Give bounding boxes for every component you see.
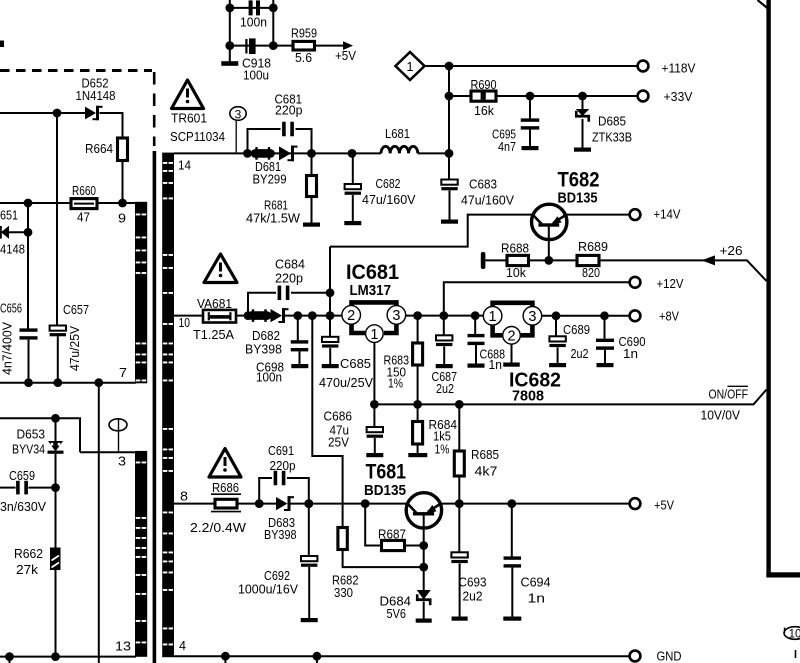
svg-text:820: 820 [582, 265, 600, 280]
wire D652 to corner [57, 112, 85, 114]
label 10V/0V [701, 407, 741, 422]
regulator IC681 pin 2 [342, 306, 361, 325]
svg-text:C656: C656 [0, 301, 22, 316]
svg-text:R687: R687 [378, 526, 406, 541]
wire pin10 to fuse [174, 315, 203, 317]
terminal +33V [638, 91, 649, 102]
resistor R690 [471, 91, 496, 101]
label R684 [429, 417, 458, 432]
label 2u2 of C689 [571, 346, 589, 361]
junction C691 right [304, 499, 313, 508]
label R664 [85, 141, 113, 156]
wire base node down [423, 546, 425, 568]
ground bar C690 [597, 363, 614, 367]
diode D681 bead [255, 147, 271, 160]
capacitor C698 [291, 316, 309, 364]
terminal +12V [630, 277, 641, 288]
ground bar C689 [549, 363, 566, 367]
warning triangle VA681 [204, 254, 237, 283]
label 1% of R683 [388, 376, 403, 391]
wire fuse to D682 [236, 315, 251, 317]
label 10k [506, 265, 526, 280]
junction C695 top [526, 92, 535, 101]
fuse VA681 [203, 310, 236, 323]
wire pin7 line [0, 382, 136, 384]
capacitor C682 [345, 153, 361, 221]
svg-text:+33V: +33V [664, 89, 693, 104]
dashed boundary horizontal [0, 69, 152, 72]
diode D682 bead [252, 309, 268, 322]
capacitor C690 [596, 316, 614, 363]
border bus line [766, 0, 800, 578]
wire R664 to node 9 [122, 161, 124, 204]
resistor R684 [413, 404, 423, 453]
svg-text:1%: 1% [388, 376, 403, 391]
label +8V [659, 309, 679, 324]
junction gnd stub 1 [221, 652, 230, 661]
junction R683 top [413, 311, 422, 320]
junction R664-R660 [118, 199, 127, 208]
svg-text:651: 651 [0, 208, 18, 223]
label VA681 [197, 296, 232, 311]
svg-text:100n: 100n [240, 15, 267, 30]
wire R686 to D683 [237, 503, 276, 505]
label 27k [16, 562, 39, 577]
diode D685 zener [575, 96, 590, 148]
label IC681 [346, 261, 399, 284]
wire IC682 pin2 gnd [511, 345, 513, 363]
ground bar R681 [303, 223, 320, 227]
junction top-left 100n [225, 4, 234, 13]
label D651 partial [0, 208, 18, 223]
svg-text:4n7/400V: 4n7/400V [0, 322, 15, 375]
svg-text:T1.25A: T1.25A [193, 327, 234, 342]
wire +12V branch [444, 282, 630, 315]
wire riser to R690 [449, 95, 471, 97]
svg-text:R662: R662 [14, 546, 43, 561]
svg-text:TR601: TR601 [171, 111, 207, 126]
terminal +14V [630, 209, 641, 220]
label 7808 [512, 388, 544, 405]
label R685 [471, 447, 499, 462]
svg-text:C691: C691 [268, 443, 294, 458]
wire vertical right leg of C918 block [272, 0, 274, 46]
label R683 [384, 353, 410, 368]
wire R689 to +26 [599, 260, 767, 281]
junction right C918 [269, 41, 278, 50]
capacitor C695 [521, 96, 540, 146]
svg-text:R685: R685 [471, 447, 499, 462]
junction R682 riser top [308, 311, 317, 320]
label D684 [380, 594, 412, 609]
diode D653 BYV34 [48, 441, 64, 454]
wire D651 to node [9, 231, 28, 233]
node 3 bubble [230, 107, 246, 153]
label BY398 of D682 [245, 342, 282, 357]
label pin 9 [118, 211, 126, 226]
junction R687 node [419, 541, 428, 550]
svg-text:R686: R686 [212, 480, 239, 495]
svg-text:10V/0V: 10V/0V [701, 407, 741, 422]
label 47u/160V of C682 [362, 192, 416, 207]
svg-text:2: 2 [347, 308, 355, 324]
junction R687 top [361, 499, 370, 508]
wire D683 to T681 [291, 503, 407, 505]
label R687 [378, 526, 406, 541]
svg-text:BY398: BY398 [245, 342, 282, 357]
wire T681 right [442, 503, 460, 505]
label pin 3 [118, 454, 126, 469]
svg-text:2u2: 2u2 [571, 346, 589, 361]
label R662 [14, 546, 43, 561]
label T682 [558, 169, 600, 192]
resistor R686 safety [211, 494, 241, 511]
resistor R959 [293, 41, 315, 50]
svg-text:2u2: 2u2 [463, 589, 483, 604]
capacitor C918 polarized [245, 38, 255, 54]
svg-text:47u/160V: 47u/160V [461, 193, 514, 208]
capacitor C681 loop [248, 122, 312, 154]
label 47k/1.5W [246, 211, 301, 226]
label C698 [256, 360, 284, 375]
svg-text:330: 330 [334, 585, 353, 600]
diode D682 [271, 308, 289, 323]
svg-text:16k: 16k [474, 103, 494, 118]
svg-text:BY299: BY299 [253, 172, 287, 187]
wire pin9 line [0, 202, 71, 204]
label 4148 partial [0, 242, 25, 257]
label C689 [563, 322, 590, 337]
wire T682 emitter to +14V [567, 214, 630, 216]
label 2u2 of C693 [463, 589, 483, 604]
label D685 [598, 114, 626, 129]
svg-text:10: 10 [179, 315, 191, 330]
label 470u/25V [319, 375, 373, 390]
resistor R683 [413, 316, 423, 405]
svg-text:220p: 220p [275, 271, 303, 286]
wire T682 base drop [548, 240, 550, 261]
diode D684 zener [416, 567, 432, 618]
junction D681 anode [243, 149, 252, 158]
label 1N4148 of D652 [76, 88, 116, 103]
svg-text:C659: C659 [9, 468, 35, 483]
svg-text:1000u/16V: 1000u/16V [238, 582, 298, 597]
ground bar C686 [366, 453, 383, 457]
junction R662 bottom [51, 652, 60, 661]
label C684 [275, 257, 305, 272]
junction C692 top [304, 499, 313, 508]
svg-text:47u/25V: 47u/25V [67, 326, 82, 371]
label R686 [212, 480, 239, 495]
label C691 [268, 443, 294, 458]
wire D682 to IC681 [285, 315, 342, 317]
svg-text:2.2/0.4W: 2.2/0.4W [190, 520, 247, 535]
junction node9 left [24, 199, 33, 208]
svg-text:C686: C686 [324, 409, 353, 424]
svg-text:3: 3 [392, 308, 400, 324]
label C656 [0, 301, 22, 316]
resistor R687 [365, 504, 424, 551]
svg-text:R660: R660 [72, 183, 96, 198]
ground bar D684 [416, 619, 432, 623]
junction T682 base node [544, 256, 553, 265]
svg-text:GND: GND [657, 649, 682, 663]
svg-text:3: 3 [235, 107, 242, 121]
label C685 [340, 356, 371, 371]
label 4n7 of C695 [498, 139, 516, 154]
junction riser pin7 [94, 378, 103, 387]
label +26 [720, 243, 743, 258]
label pin 7 [119, 365, 127, 380]
wire C657 to pin7 line [57, 336, 59, 382]
transistor T681 [406, 493, 441, 528]
label C692 [264, 568, 290, 583]
ground bar IC682 [503, 363, 520, 367]
label 220p of C684 [275, 271, 303, 286]
svg-text:100n: 100n [256, 370, 282, 385]
transistor T682 [532, 204, 567, 239]
label 1000u/16V [238, 582, 298, 597]
label +14V [654, 207, 681, 222]
transformer secondary winding [162, 153, 174, 658]
label L681 [385, 126, 410, 141]
wire T681 base drop [423, 528, 425, 546]
junction D685 top [578, 92, 587, 101]
svg-text:10k: 10k [506, 265, 526, 280]
label D652 [82, 76, 109, 91]
label 1n of C694 [528, 591, 546, 606]
label TR601 [171, 111, 207, 126]
label C683 [469, 177, 497, 192]
junction R685 top [455, 400, 464, 409]
wire diagonal top right [758, 0, 769, 9]
svg-text:5V6: 5V6 [387, 606, 407, 621]
svg-text:L681: L681 [385, 126, 410, 141]
svg-text:R690: R690 [471, 77, 497, 92]
label D653 [17, 427, 46, 442]
svg-text:T681: T681 [366, 461, 407, 484]
regulator IC682 pin 1 [483, 307, 502, 326]
junction D653 branch [51, 414, 60, 423]
wire T682 collector path [330, 215, 532, 247]
ground bar D685 [574, 148, 591, 152]
label C695 [492, 127, 516, 142]
svg-text:13: 13 [115, 639, 131, 654]
diode D652 [85, 106, 103, 120]
capacitor C659 [16, 481, 28, 495]
wire D653 drop [55, 418, 57, 441]
wire IC681 pin1 drop [373, 343, 375, 405]
arrow +26 direction [702, 255, 716, 265]
wire vertical left leg of C918 block [229, 0, 231, 62]
label ON/OFF [709, 386, 749, 401]
junction C689 top [552, 311, 561, 320]
junction C659 [51, 483, 60, 492]
svg-text:1: 1 [370, 327, 378, 343]
label +5V top [335, 48, 356, 63]
label C694 [521, 575, 551, 590]
wire D652 to R664 [100, 113, 123, 138]
node 1 oval link [109, 419, 127, 453]
svg-text:4k7: 4k7 [475, 464, 498, 479]
svg-text:4n7: 4n7 [498, 139, 516, 154]
label 47u/160V of C683 [461, 193, 514, 208]
junction D684 node [419, 563, 428, 572]
warning triangle TR601 [172, 80, 204, 109]
label R689 [578, 239, 608, 254]
wire D652 line [0, 112, 57, 114]
warning triangle R686 [209, 449, 241, 478]
label pin 10 [179, 315, 191, 330]
label R688 [501, 241, 529, 256]
label GND [657, 649, 682, 663]
wire stub left [9, 657, 11, 663]
wire bottom-left gnd line [0, 656, 136, 658]
label T681 [366, 461, 407, 484]
resistor R685 [454, 404, 464, 503]
resistor R662 safety [50, 548, 61, 571]
label T1.25A [193, 327, 234, 342]
label BY299 [253, 172, 287, 187]
label R681 [264, 198, 288, 213]
wire R959 to +5V arrow [315, 45, 348, 47]
wire R662 to gnd line [55, 570, 57, 657]
junction C684 right [326, 288, 335, 297]
junction C694 top [507, 499, 516, 508]
svg-text:D685: D685 [598, 114, 626, 129]
regulator IC682 brackets [493, 303, 533, 336]
label 25V of C686 [328, 435, 349, 450]
wire left node down [27, 203, 29, 232]
resistor R689 [577, 255, 599, 265]
label 1n of C688 [489, 357, 503, 372]
resistor R664 [118, 138, 128, 161]
wire lower branch [0, 418, 80, 452]
label pin 8 [180, 489, 188, 504]
label C686 [324, 409, 353, 424]
regulator IC682 pin 2 [503, 327, 521, 345]
label C693 [459, 575, 487, 590]
wire C918 to R959 [273, 45, 293, 47]
wire L681 to riser [418, 152, 449, 154]
junction R685 bottom [455, 499, 464, 508]
ground bar R684 [408, 453, 427, 457]
junction C657 pin7 [53, 378, 62, 387]
label D683 [268, 515, 295, 530]
wire R690 to +33V [496, 95, 638, 97]
transformer primary winding [135, 202, 147, 657]
wire C659 node to R662 [55, 488, 57, 548]
wire riser long [98, 383, 100, 663]
svg-text:1N4148: 1N4148 [76, 88, 116, 103]
diode D683 [276, 496, 294, 511]
edge mark left [0, 41, 4, 48]
capacitor C694 [504, 504, 522, 617]
ground bar C685 [322, 364, 339, 368]
svg-text:ZTK33B: ZTK33B [592, 130, 632, 145]
svg-text:1%: 1% [435, 442, 450, 457]
label 5.6 value [295, 50, 312, 65]
label 220p of C681 [275, 103, 303, 118]
wire pin8 to R686 [174, 503, 215, 505]
junction C688 top [471, 311, 480, 320]
wire R685node to +5V [459, 503, 629, 505]
svg-text:3: 3 [118, 454, 126, 469]
wire ON/OFF line [374, 390, 766, 405]
label 1n of C690 [623, 346, 638, 361]
svg-text:470u/25V: 470u/25V [319, 375, 373, 390]
svg-text:ON/OFF: ON/OFF [709, 386, 749, 401]
svg-text:9: 9 [118, 211, 126, 226]
resistor R682 [338, 528, 424, 568]
svg-text:C684: C684 [275, 257, 305, 272]
junction D652 line [53, 109, 62, 118]
label C659 [9, 468, 35, 483]
capacitor C656 [20, 328, 38, 339]
wire base node to R689 [549, 259, 577, 261]
label 4n7/400V rotated [0, 322, 15, 375]
label 330 [334, 585, 353, 600]
terminal +5V [630, 498, 641, 509]
regulator IC681 pin 1 [366, 325, 384, 343]
label 47 value [77, 210, 90, 225]
wire bar to R688 [485, 259, 507, 261]
wire IC682 out +8V [542, 315, 630, 317]
wire C918 branch [230, 45, 273, 47]
label +118V [662, 61, 696, 76]
label R690 [471, 77, 497, 92]
label C687 [432, 369, 458, 384]
wire R660 to transformer [97, 202, 136, 204]
svg-text:C693: C693 [459, 575, 487, 590]
svg-text:C685: C685 [340, 356, 371, 371]
svg-text:SCP11034: SCP11034 [170, 129, 225, 144]
junction C691 left [255, 499, 264, 508]
svg-text:BD135: BD135 [364, 482, 406, 499]
svg-text:R959: R959 [291, 26, 317, 41]
ground bar C688 [468, 364, 485, 368]
label 16k [474, 103, 494, 118]
label IC682 [509, 370, 561, 392]
svg-text:1: 1 [489, 309, 497, 325]
svg-text:4148: 4148 [0, 242, 25, 257]
label +5V right [654, 498, 674, 513]
label LM317 [350, 282, 392, 299]
label C681 [275, 92, 303, 107]
svg-text:C657: C657 [63, 302, 89, 317]
wire node down to C656 [27, 232, 29, 329]
junction left C918 [225, 41, 234, 50]
capacitor C687 [436, 316, 452, 364]
junction C690 top [600, 311, 609, 320]
svg-text:1n: 1n [489, 357, 503, 372]
label BYV34 [12, 442, 45, 457]
junction C686 top [370, 400, 379, 409]
ground bar C693 [452, 617, 468, 621]
svg-text:2: 2 [507, 329, 515, 345]
regulator IC682 pin 3 [523, 307, 542, 326]
label BY398 of D683 [264, 527, 297, 542]
junction C656 pin7 [24, 378, 33, 387]
svg-text:VA681: VA681 [197, 296, 232, 311]
label 47u/25V rotated [67, 326, 82, 371]
svg-text:C694: C694 [521, 575, 551, 590]
svg-text:47: 47 [77, 210, 90, 225]
junction +118V riser [445, 62, 454, 71]
wire +118V riser [448, 66, 450, 180]
label C682 [376, 176, 401, 191]
ground bar C682 [344, 221, 361, 225]
